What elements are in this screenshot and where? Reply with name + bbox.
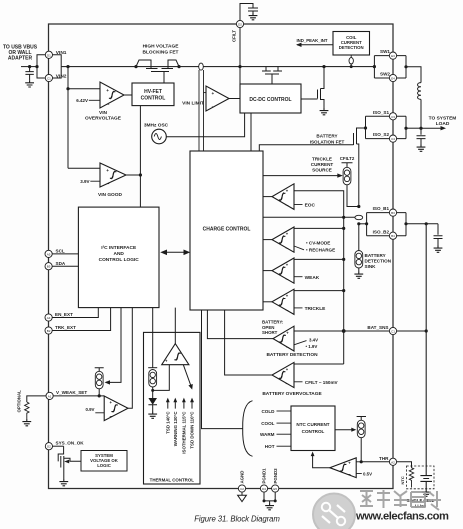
wire V_WEAK_SET internal: [53, 395, 104, 397]
svg-text:−: −: [286, 247, 289, 252]
svg-text:A4: A4: [47, 316, 51, 320]
wire 6.42V stub: [89, 99, 100, 101]
svg-text:VIN LIMIT: VIN LIMIT: [182, 101, 204, 107]
svg-text:BLOCKING FET: BLOCKING FET: [143, 50, 179, 56]
svg-text:NTC: NTC: [400, 476, 405, 484]
wire WARM stub: [277, 433, 292, 435]
svg-text:B2: B2: [47, 329, 51, 333]
svg-text:SHORT: SHORT: [262, 330, 278, 335]
wire THR line: [361, 461, 389, 463]
svg-text:D2: D2: [238, 23, 242, 27]
ground system load cap: [417, 145, 426, 152]
wire SCL: [52, 253, 78, 255]
svg-text:VIN GOOD: VIN GOOD: [98, 192, 123, 198]
svg-text:TRK_EXT: TRK_EXT: [55, 325, 76, 330]
svg-text:SOURCE: SOURCE: [312, 168, 332, 173]
wire trickle source output: [347, 185, 359, 207]
svg-text:A5: A5: [47, 252, 51, 256]
arrow TSD level 4: [191, 400, 193, 409]
wire battery detection output: [207, 310, 273, 339]
pin PGND3: [272, 485, 279, 492]
ground system ok FET: [59, 479, 68, 486]
svg-text:C1: C1: [47, 77, 51, 81]
svg-text:−: −: [348, 473, 351, 478]
svg-text:CFILT ~ 150mV: CFILT ~ 150mV: [305, 380, 339, 385]
svg-text:SINK: SINK: [365, 264, 377, 269]
svg-text:IND_PEAK_INT: IND_PEAK_INT: [296, 38, 327, 43]
svg-text:D4: D4: [262, 487, 266, 491]
wire DC-DC to charge control: [250, 113, 252, 151]
wire sense pair left: [198, 70, 200, 151]
svg-text:ISO_S2: ISO_S2: [373, 132, 390, 137]
op-amp VIN OVERVOLTAGE comparator: [100, 82, 124, 108]
svg-text:B4: B4: [391, 234, 395, 238]
transistor system ok FET: [58, 446, 81, 479]
wire SW loop: [374, 56, 406, 78]
op-amp VIN GOOD comparator: [100, 163, 126, 188]
svg-text:ISO_S1: ISO_S1: [373, 110, 390, 115]
ground AGND open triangle: [238, 492, 247, 502]
wire to VIN2: [37, 67, 45, 78]
svg-text:COOL: COOL: [261, 421, 274, 426]
ground battery node cap: [434, 246, 443, 253]
svg-text:0.9V: 0.9V: [85, 407, 94, 412]
pin ISO_S1: [389, 113, 396, 120]
wire ISO_B to battery rail: [406, 223, 438, 225]
junction battery sense top: [357, 205, 360, 208]
svg-text:ADAPTER: ADAPTER: [8, 56, 33, 62]
junction SW split: [373, 65, 376, 68]
junction comparator rail top: [342, 216, 345, 219]
junction battery sense bottom: [357, 222, 360, 225]
capacitor CIN: [25, 67, 33, 81]
box DC-DC CONTROL: [240, 84, 301, 113]
wire ISO_S to load rail: [406, 127, 421, 129]
svg-text:EOC: EOC: [305, 203, 316, 209]
svg-text:DC-DC CONTROL: DC-DC CONTROL: [249, 97, 291, 103]
svg-text:CONTROL: CONTROL: [141, 96, 166, 102]
arrow TSD level 1: [167, 400, 169, 409]
svg-text:TRICKLE: TRICKLE: [305, 306, 327, 312]
svg-text:ISO_B1: ISO_B1: [373, 206, 390, 211]
wire V_WEAK comparator output: [128, 308, 132, 409]
wire V_WEAK source to node: [98, 389, 100, 396]
inductor L1: [418, 83, 421, 100]
sense element VIN current sense: [199, 63, 204, 70]
wire charge control battery sense: [263, 216, 355, 218]
wire trickle source arrow: [263, 175, 340, 177]
wire CV output: [263, 239, 272, 241]
wire NTC box to THR source arrow: [335, 429, 354, 431]
junction THR node: [360, 460, 363, 463]
arrow TSD level 3: [183, 400, 185, 409]
svg-text:−: −: [110, 415, 113, 420]
ground PGND: [265, 503, 274, 510]
box THERMAL CONTROL: [144, 332, 201, 484]
current source THR bias: [357, 417, 366, 421]
svg-text:AGND: AGND: [240, 471, 245, 484]
wire THR comparator output arrow: [313, 454, 330, 468]
op-amp thermal comparator: [162, 344, 189, 365]
pin V_WEAK_SET: [46, 392, 53, 399]
wire charge control to NTC brace: [202, 310, 243, 429]
svg-text:BATTERY DETECTION: BATTERY DETECTION: [266, 352, 318, 358]
pin THR: [389, 458, 396, 465]
wire sys fet feed: [53, 445, 64, 447]
svg-text:• CV-MODE: • CV-MODE: [306, 241, 330, 246]
transistor battery isolation FET: [354, 128, 366, 207]
svg-text:AND: AND: [113, 251, 124, 257]
svg-text:HIGH VOLTAGE: HIGH VOLTAGE: [143, 44, 180, 50]
svg-text:THERMAL CONTROL: THERMAL CONTROL: [150, 478, 195, 483]
junction load node: [419, 127, 422, 130]
junction VIN GOOD out: [139, 173, 142, 176]
junction battery rail top: [425, 222, 428, 225]
svg-text:B3: B3: [391, 211, 395, 215]
svg-text:C3: C3: [391, 115, 395, 119]
svg-text:Figure 31. Block Diagram: Figure 31. Block Diagram: [194, 515, 280, 524]
wire CV plus input: [294, 227, 344, 229]
svg-text:WARNING 130°C: WARNING 130°C: [173, 411, 178, 447]
pin SYS_ON_OK: [45, 443, 52, 450]
wire 0.9V stub: [95, 412, 104, 414]
wire WEAK output: [263, 270, 272, 272]
wire EOC output: [263, 196, 272, 198]
wire WEAK ref stub: [294, 276, 303, 278]
svg-text:−: −: [212, 105, 215, 111]
wire VIN1 internal: [53, 55, 62, 67]
ground optional resistor: [22, 419, 31, 426]
pin VIN1: [45, 51, 52, 58]
current source battery detection sink: [355, 251, 363, 269]
wire HV-FET control to logic: [139, 106, 141, 208]
wire V_WEAK_SET external: [27, 396, 46, 402]
op-amp WEAK comparator: [272, 258, 294, 283]
wire to system load arrow: [421, 127, 443, 129]
svg-text:HOT: HOT: [265, 444, 275, 449]
ground CFILT: [249, 13, 258, 20]
wire VIN LIMIT plus stub: [204, 92, 207, 94]
wire TRICKLE ref stub: [294, 307, 303, 309]
wire PGND join: [264, 492, 275, 503]
svg-text:COLD: COLD: [261, 409, 275, 414]
wire main VIN rail: [61, 66, 374, 68]
svg-text:B5: B5: [47, 265, 51, 269]
watermark text dianzifashaoyou: [360, 490, 441, 510]
wire battery overvoltage ref stub: [294, 381, 303, 383]
svg-text:D1: D1: [47, 53, 51, 57]
svg-text:CONTROL LOGIC: CONTROL LOGIC: [99, 257, 140, 263]
wire I2C to V_WEAK source arrow: [106, 308, 121, 383]
pin CFILT: [236, 20, 243, 27]
transistor DC-DC high side FET: [262, 67, 282, 84]
wire comparator input rail: [343, 217, 345, 364]
ground thermal diode: [148, 412, 157, 419]
wire TRICKLE plus input: [294, 290, 344, 292]
svg-text:PGND3: PGND3: [273, 468, 278, 484]
capacitor battery node: [434, 224, 443, 246]
thermistor NTC: [409, 468, 413, 485]
wire EOC ref stub: [294, 204, 303, 206]
wire I2C to thermal source: [152, 308, 154, 368]
wire OSC output: [166, 113, 244, 137]
svg-text:−: −: [286, 346, 289, 351]
svg-text:−: −: [106, 102, 109, 108]
wire VIN GOOD plus: [68, 167, 100, 169]
node label TO USB VBUS OR WALL ADAPTER: [3, 45, 38, 62]
svg-text:C4: C4: [391, 137, 395, 141]
wire isolation FET gate from charge control: [259, 145, 353, 151]
wire low side source: [323, 104, 325, 108]
junction ISO_B split: [365, 222, 368, 225]
svg-text:SYS_ON_OK: SYS_ON_OK: [56, 440, 85, 445]
svg-text:C1: C1: [391, 330, 395, 334]
wire thermal output arrow: [183, 365, 191, 387]
wire sense drop x68: [67, 67, 69, 169]
junction vin ov tap: [66, 87, 69, 90]
wire sink to ground: [358, 268, 360, 272]
junction low side drain: [322, 65, 325, 68]
junction CFILT rail: [238, 65, 241, 68]
wire SDA: [52, 265, 78, 267]
svg-text:EN_EXT: EN_EXT: [55, 312, 73, 317]
svg-text:ISOLATION FET: ISOLATION FET: [310, 139, 345, 144]
pin SW1: [389, 52, 396, 59]
svg-text:TSD 140°C: TSD 140°C: [166, 411, 171, 434]
wire EN_EXT: [52, 308, 98, 318]
svg-text:V_WEAK_SET: V_WEAK_SET: [56, 390, 87, 395]
svg-text:ISOTHERMAL 115°C: ISOTHERMAL 115°C: [182, 411, 187, 454]
box HV-FET CONTROL U2: [132, 83, 174, 106]
wire battery overvoltage plus: [294, 363, 344, 365]
wire SW to inductor: [406, 67, 421, 83]
svg-text:E3: E3: [391, 54, 395, 58]
wire battery overvoltage output: [225, 310, 272, 375]
wire THR external: [397, 462, 412, 468]
pin SCL: [45, 250, 52, 257]
label HIGH VOLTAGE BLOCKING FET: [143, 44, 180, 56]
junction weak set node: [98, 394, 101, 397]
svg-text:BATTERY OVERVOLTAGE: BATTERY OVERVOLTAGE: [262, 391, 322, 397]
wire sink drop: [358, 224, 360, 251]
junction CV plus: [342, 227, 345, 230]
svg-text:CFILT: CFILT: [232, 30, 237, 42]
junction BAT_SNS battery rail: [425, 329, 428, 332]
op-amp TRICKLE comparator: [272, 289, 294, 314]
svg-text:THR: THR: [379, 456, 389, 461]
svg-text:NTC CURRENT: NTC CURRENT: [296, 422, 329, 427]
junction TRICKLE plus: [342, 289, 345, 292]
box I2C INTERFACE AND CONTROL LOGIC: [78, 207, 159, 308]
svg-text:A1: A1: [48, 394, 52, 398]
pin SDA: [45, 263, 52, 270]
wire I2C to thermal comparator: [174, 308, 176, 344]
wire battery rail: [425, 224, 427, 475]
svg-text:SDA: SDA: [56, 261, 66, 266]
svg-text:OVERVOLTAGE: OVERVOLTAGE: [85, 116, 122, 122]
pin BAT_SNS: [389, 327, 396, 334]
wire coil sense stub: [350, 55, 352, 67]
wire 3.9V stub: [90, 180, 100, 182]
battery pack dashed box: [407, 466, 435, 489]
box CHARGE CONTROL: [190, 151, 263, 310]
junction PGND3: [274, 499, 277, 502]
junction WEAK plus: [342, 258, 345, 261]
svg-text:TSD DOWN 110°C: TSD DOWN 110°C: [190, 411, 195, 449]
junction blocking fet left: [134, 65, 137, 68]
svg-text:−: −: [286, 204, 289, 209]
wire HOT stub: [277, 445, 292, 447]
op-amp V_WEAK comparator: [104, 396, 128, 421]
op-amp EOC comparator: [272, 184, 294, 210]
svg-text:BAT_SNS: BAT_SNS: [367, 325, 388, 330]
svg-text:+: +: [106, 168, 109, 173]
svg-text:3.9V: 3.9V: [80, 179, 89, 184]
wire CV ref stub: [294, 246, 304, 250]
transistor high voltage blocking FET: [136, 60, 179, 83]
pin ISO_B1: [389, 209, 396, 216]
box NTC CURRENT CONTROL: [291, 406, 335, 451]
label TRICKLE CURRENT SOURCE: [311, 157, 334, 173]
wire WEAK plus input: [294, 258, 344, 260]
svg-text:CONTROL: CONTROL: [302, 429, 325, 434]
pin PGND1: [260, 485, 267, 492]
label BATTERY DETECTION SINK: [365, 253, 392, 269]
junction ISO_B merge: [404, 222, 407, 225]
svg-text:CHARGE CONTROL: CHARGE CONTROL: [203, 227, 251, 233]
wire THR bias to THR node: [360, 438, 362, 462]
wire THR comparator plus: [356, 461, 361, 463]
IC outer border: [49, 24, 394, 489]
svg-text:DETECTION: DETECTION: [365, 259, 392, 264]
box COIL CURRENT DETECTION: [333, 32, 370, 56]
svg-text:SW2: SW2: [380, 72, 390, 77]
pin SW2: [389, 74, 396, 81]
current source V_WEAK: [95, 368, 104, 372]
junction rail x68: [66, 65, 69, 68]
svg-text:D2: D2: [47, 445, 51, 449]
wire TRICKLE output: [263, 301, 272, 303]
arrow TSD level 2: [174, 400, 176, 409]
sense element coil sense: [349, 58, 353, 64]
ground battery detection sink: [354, 272, 363, 279]
svg-text:OPTIONAL: OPTIONAL: [17, 390, 22, 413]
sense element battery current sense: [355, 215, 363, 219]
wire VIN LIMIT output: [229, 98, 240, 100]
current source trickle: [343, 167, 351, 185]
brace NTC thresholds: [243, 401, 253, 457]
junction ISO_S merge: [404, 127, 407, 130]
svg-text:A2: A2: [391, 460, 395, 464]
svg-text:E5: E5: [273, 487, 277, 491]
label BATTERY OPEN SHORT: [262, 320, 284, 335]
svg-text:• RECHARGE: • RECHARGE: [306, 248, 335, 253]
label VIN OVERVOLTAGE: [85, 110, 122, 122]
svg-text:CURRENT: CURRENT: [311, 162, 334, 167]
svg-text:I²C INTERFACE: I²C INTERFACE: [101, 245, 137, 251]
svg-text:0.5V: 0.5V: [363, 472, 372, 477]
svg-text:CFILT2: CFILT2: [340, 156, 355, 161]
svg-text:ISO_B2: ISO_B2: [373, 229, 390, 234]
wire VIN OV output: [124, 94, 132, 96]
svg-text:+: +: [212, 91, 215, 96]
junction thermal source out: [151, 389, 154, 392]
svg-text:6.42V: 6.42V: [76, 98, 88, 103]
battery cell: [420, 476, 432, 490]
wire sense pair right: [203, 70, 205, 151]
wire NTC to battery minus: [411, 485, 413, 488]
label battery pack: [407, 498, 435, 508]
label BATTERY ISOLATION FET: [310, 134, 345, 145]
pin ISO_B2: [389, 232, 396, 239]
capacitor system load: [417, 128, 426, 144]
wire battery detection ref stub: [294, 341, 307, 345]
op-amp BATTERY OVERVOLTAGE comparator: [272, 362, 294, 387]
wire VIN GOOD output: [126, 174, 140, 176]
transistor DC-DC low side FET: [301, 67, 324, 104]
wire IND_PEAK_INT arrow: [297, 44, 333, 46]
wire ISO_B link: [359, 223, 367, 225]
svg-text:www.elecfans.com: www.elecfans.com: [355, 511, 449, 523]
pin AGND: [238, 485, 245, 492]
box SYSTEM VOLTAGE OK LOGIC: [81, 451, 127, 472]
svg-text:HV-FET: HV-FET: [144, 89, 162, 95]
svg-text:WEAK: WEAK: [305, 275, 320, 281]
svg-text:LOAD: LOAD: [436, 121, 450, 127]
op-amp BATTERY DETECTION comparator: [273, 326, 294, 351]
wire COOL stub: [277, 422, 292, 424]
junction SW merge: [404, 65, 407, 68]
svg-text:−: −: [286, 309, 289, 314]
label TO SYSTEM LOAD: [429, 115, 457, 127]
svg-text:BATTERY: BATTERY: [365, 253, 386, 258]
svg-text:3MHz OSC: 3MHz OSC: [144, 122, 169, 128]
svg-text:E4: E4: [391, 77, 395, 81]
svg-text:BATTERY: BATTERY: [316, 134, 337, 139]
arrow I2C to charge control: [162, 250, 190, 254]
junction ISO_S split: [364, 126, 367, 129]
wire EOC plus input: [294, 191, 344, 218]
svg-text:−: −: [286, 278, 289, 283]
pin ISO_S2: [389, 135, 396, 142]
svg-text:DETECTION: DETECTION: [339, 45, 364, 50]
ground low side FET: [320, 108, 329, 115]
capacitor CFILT: [248, 8, 258, 13]
svg-text:VIN: VIN: [99, 110, 108, 116]
wire TRK_EXT: [52, 308, 110, 331]
junction input cap: [28, 65, 31, 68]
wire input rail: [21, 66, 37, 68]
wire thermal source to comparator: [153, 365, 170, 391]
svg-text:C2: C2: [240, 487, 244, 491]
wire 0.5V stub: [356, 473, 362, 475]
junction BAT_SNS rail: [342, 329, 346, 333]
pin EN_EXT: [45, 314, 52, 321]
resistor optional: [25, 402, 29, 419]
wire inductor to load node: [420, 99, 422, 128]
svg-text:PGND1: PGND1: [262, 468, 267, 484]
svg-text:+: +: [106, 88, 109, 93]
wire to VIN OV plus: [68, 88, 100, 90]
junction blocking fet right: [177, 65, 180, 68]
ground battery: [422, 490, 431, 497]
op-amp THR comparator: [330, 458, 356, 478]
wire ISO_B loop: [367, 213, 406, 236]
svg-text:LOGIC: LOGIC: [97, 463, 111, 468]
current source thermal: [148, 367, 157, 369]
svg-text:3.4V: 3.4V: [309, 338, 318, 343]
junction PGND1: [263, 499, 266, 502]
